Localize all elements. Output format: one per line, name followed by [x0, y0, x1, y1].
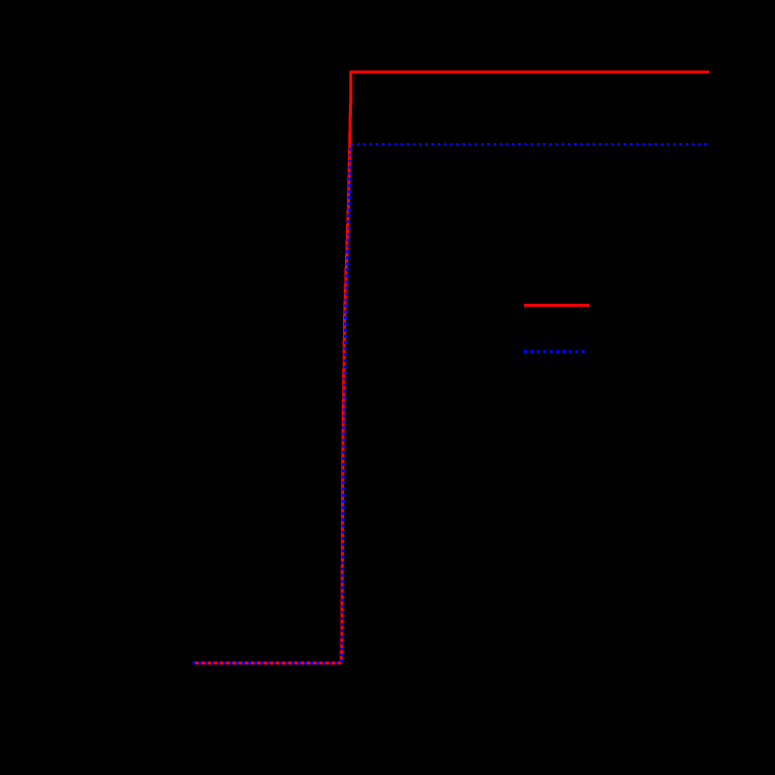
blue dotted CDF curve	[193, 145, 710, 664]
legend blue dotted line sample	[524, 350, 586, 353]
red solid ECDF curve	[193, 72, 710, 663]
legend red solid line sample	[524, 304, 590, 307]
